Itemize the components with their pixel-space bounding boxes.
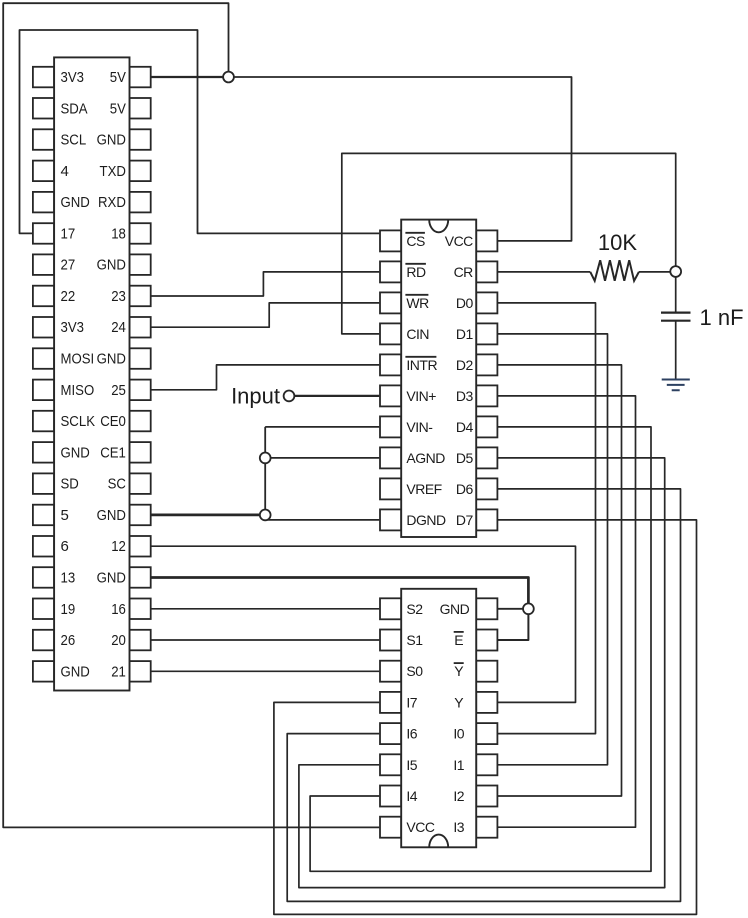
wire ADC D0 to MUX I0 bbox=[498, 303, 596, 734]
GPIO header J1 right pin 24 bbox=[130, 317, 151, 338]
GPIO header J1 right pin GND bbox=[130, 254, 151, 275]
MUX U2 right pin I0 bbox=[476, 723, 497, 744]
GPIO header J1 left pin GND bbox=[33, 661, 54, 682]
svg-text:RXD: RXD bbox=[98, 194, 126, 211]
wire GPIO12 to MUX Y bbox=[151, 546, 576, 702]
svg-text:CR: CR bbox=[454, 264, 474, 280]
GPIO header J1 right pin 16 bbox=[130, 599, 151, 620]
wire ADC D2 to MUX I2 bbox=[498, 365, 622, 796]
GPIO header J1 left pin 5 bbox=[33, 505, 54, 526]
wire junction to ADC AGND bbox=[265, 457, 379, 459]
IC body GPIO header J1 bbox=[54, 57, 129, 690]
wire resistor R1 right lead to junction bbox=[639, 271, 670, 273]
GPIO header J1 right pin GND bbox=[130, 129, 151, 150]
svg-text:VIN-: VIN- bbox=[406, 419, 433, 435]
svg-text:WR: WR bbox=[406, 295, 429, 311]
ADC U1 right pin D0 bbox=[476, 292, 497, 313]
svg-text:Y: Y bbox=[454, 663, 464, 679]
GPIO header J1 right pin SC bbox=[130, 473, 151, 494]
svg-text:SD: SD bbox=[61, 476, 79, 493]
wire junction to MUX E bbox=[498, 609, 529, 640]
GPIO header J1 left pin 27 bbox=[33, 254, 54, 275]
GPIO header J1 right pin 23 bbox=[130, 286, 151, 307]
ADC U1 right pin CR bbox=[476, 261, 497, 282]
MUX U2 left pin S1 bbox=[380, 630, 401, 651]
RC clock junction node bbox=[670, 266, 681, 277]
GPIO header J1 right pin 25 bbox=[130, 380, 151, 401]
svg-text:S0: S0 bbox=[406, 663, 423, 679]
ADC U1 right pin D2 bbox=[476, 354, 497, 375]
MUX U2 right pin GND bbox=[476, 598, 497, 619]
GPIO header J1 left pin 17 bbox=[33, 223, 54, 244]
svg-text:Y: Y bbox=[454, 694, 464, 710]
svg-text:1 nF: 1 nF bbox=[700, 305, 744, 330]
svg-text:GND: GND bbox=[97, 257, 126, 274]
svg-text:I5: I5 bbox=[406, 757, 417, 773]
svg-text:D2: D2 bbox=[456, 357, 474, 373]
svg-text:I2: I2 bbox=[453, 788, 464, 804]
svg-text:10K: 10K bbox=[598, 230, 637, 255]
svg-text:AGND: AGND bbox=[406, 450, 445, 466]
GPIO header J1 right pin CE1 bbox=[130, 442, 151, 463]
node Input terminal circle bbox=[284, 391, 295, 402]
ADC U1 left pin WR bbox=[380, 292, 401, 313]
wire ADC D3 to MUX I3 bbox=[498, 396, 636, 827]
wire analog ground net vertical bbox=[264, 427, 266, 520]
svg-text:TXD: TXD bbox=[100, 163, 127, 180]
ADC U1 right pin D3 bbox=[476, 385, 497, 406]
wire GPIO20 to MUX S1 bbox=[151, 639, 380, 641]
svg-text:3V3: 3V3 bbox=[61, 319, 85, 336]
GPIO header J1 right pin 12 bbox=[130, 536, 151, 557]
GPIO header J1 right pin GND bbox=[130, 567, 151, 588]
svg-text:I1: I1 bbox=[453, 757, 464, 773]
ADC U1 left pin INTR bbox=[380, 354, 401, 375]
svg-text:D6: D6 bbox=[456, 481, 474, 497]
wire ADC D4 to MUX I4 bbox=[310, 427, 651, 871]
svg-text:3V3: 3V3 bbox=[61, 69, 85, 86]
AGND junction node bbox=[260, 453, 271, 464]
svg-text:18: 18 bbox=[111, 225, 126, 242]
GPIO header J1 left pin 13 bbox=[33, 567, 54, 588]
svg-text:D0: D0 bbox=[456, 295, 474, 311]
ADC U1 right pin D6 bbox=[476, 478, 497, 499]
svg-text:RD: RD bbox=[406, 264, 426, 280]
IC body MUX U2 bbox=[401, 589, 476, 848]
svg-text:13: 13 bbox=[61, 570, 76, 587]
ground symbol bbox=[662, 380, 690, 391]
wire 5V: GPIO 5V pin to junction bbox=[151, 76, 229, 78]
GPIO header J1 left pin GND bbox=[33, 192, 54, 213]
svg-text:27: 27 bbox=[61, 257, 76, 274]
svg-text:D1: D1 bbox=[456, 326, 474, 342]
wire junction to ADC VIN- bbox=[265, 426, 379, 428]
svg-text:24: 24 bbox=[111, 319, 126, 336]
wire capacitor C1 bottom lead to ground bbox=[675, 321, 677, 380]
MUX U2 left pin VCC bbox=[380, 817, 401, 838]
capacitor C1 1 nF plates bbox=[661, 313, 691, 321]
svg-text:CIN: CIN bbox=[406, 326, 429, 342]
svg-text:E: E bbox=[454, 632, 463, 648]
ADC U1 left pin AGND bbox=[380, 447, 401, 468]
GPIO header J1 right pin 5V bbox=[130, 67, 151, 88]
wire GPIO24 to ADC WR bbox=[151, 303, 380, 327]
ADC U1 left pin VIN- bbox=[380, 416, 401, 437]
GPIO header J1 right pin 18 bbox=[130, 223, 151, 244]
svg-text:D4: D4 bbox=[456, 419, 474, 435]
svg-text:SDA: SDA bbox=[61, 100, 88, 117]
5V junction node bbox=[223, 72, 234, 83]
wire resistor R1 left lead from ADC CR bbox=[498, 271, 591, 273]
svg-text:5V: 5V bbox=[110, 100, 126, 117]
svg-text:MOSI: MOSI bbox=[61, 351, 95, 368]
ADC U1 right pin VCC bbox=[476, 230, 497, 251]
GPIO header J1 right pin 21 bbox=[130, 661, 151, 682]
ADC U1 left pin CS bbox=[380, 230, 401, 251]
MUX U2 left pin I7 bbox=[380, 692, 401, 713]
svg-text:GND: GND bbox=[61, 663, 90, 680]
svg-text:5V: 5V bbox=[110, 69, 126, 86]
GPIO header J1 right pin 20 bbox=[130, 630, 151, 651]
svg-text:CS: CS bbox=[406, 233, 425, 249]
GPIO header J1 right pin TXD bbox=[130, 161, 151, 182]
svg-text:CE0: CE0 bbox=[100, 413, 126, 430]
GPIO header J1 left pin GND bbox=[33, 442, 54, 463]
svg-text:GND: GND bbox=[97, 132, 126, 149]
GPIO header J1 left pin MISO bbox=[33, 380, 54, 401]
wire GPIO25 to ADC INTR bbox=[151, 365, 380, 390]
MUX U2 left pin I4 bbox=[380, 786, 401, 807]
MUX U2 left pin S0 bbox=[380, 661, 401, 682]
svg-text:Input: Input bbox=[231, 383, 280, 408]
GPIO header J1 left pin 22 bbox=[33, 286, 54, 307]
MUX U2 right pin I1 bbox=[476, 754, 497, 775]
svg-text:4: 4 bbox=[61, 163, 69, 180]
GPIO header J1 left pin 3V3 bbox=[33, 67, 54, 88]
GPIO header J1 left pin 4 bbox=[33, 161, 54, 182]
svg-text:MISO: MISO bbox=[61, 382, 95, 399]
ADC U1 left pin DGND bbox=[380, 509, 401, 530]
wire GPIO GND to MUX GND/E junction bbox=[151, 578, 529, 609]
ground wire junction node bbox=[260, 510, 271, 521]
MUX U2 right pin I2 bbox=[476, 786, 497, 807]
wire junction to ADC DGND bbox=[265, 519, 379, 521]
ADC U1 right pin D7 bbox=[476, 509, 497, 530]
svg-text:VIN+: VIN+ bbox=[406, 388, 436, 404]
GPIO header J1 left pin 19 bbox=[33, 599, 54, 620]
wire GPIO GND to junction (analog ground net) bbox=[151, 514, 266, 517]
MUX U2 right pin Y1 bbox=[476, 661, 497, 682]
svg-text:D5: D5 bbox=[456, 450, 474, 466]
ADC U1 right pin D5 bbox=[476, 447, 497, 468]
svg-text:SCL: SCL bbox=[61, 132, 87, 149]
GPIO header J1 left pin SD bbox=[33, 473, 54, 494]
IC body ADC U1 bbox=[401, 220, 476, 537]
svg-text:21: 21 bbox=[111, 663, 126, 680]
svg-text:23: 23 bbox=[111, 288, 126, 305]
wire ADC D7 to MUX I7 bbox=[274, 520, 697, 915]
wire GPIO23 to ADC RD bbox=[151, 272, 380, 296]
wire ADC CIN to RC junction bbox=[342, 153, 676, 334]
svg-text:VREF: VREF bbox=[406, 481, 441, 497]
svg-text:S1: S1 bbox=[406, 632, 423, 648]
GPIO header J1 left pin SDA bbox=[33, 98, 54, 119]
GPIO header J1 right pin GND bbox=[130, 505, 151, 526]
MUX U2 right pin Y bbox=[476, 692, 497, 713]
GPIO header J1 right pin 5V bbox=[130, 98, 151, 119]
GPIO header J1 right pin RXD bbox=[130, 192, 151, 213]
ADC U1 left pin CIN bbox=[380, 323, 401, 344]
ADC U1 pin-1 notch bbox=[429, 220, 448, 233]
wire 5V rail outer loop: top-left around to MUX VCC bbox=[3, 3, 379, 827]
svg-text:D7: D7 bbox=[456, 512, 474, 528]
svg-text:16: 16 bbox=[111, 601, 126, 618]
ADC U1 right pin D4 bbox=[476, 416, 497, 437]
svg-text:SCLK: SCLK bbox=[61, 413, 96, 430]
GPIO header J1 left pin 6 bbox=[33, 536, 54, 557]
MUX U2 left pin I6 bbox=[380, 723, 401, 744]
GPIO header J1 left pin MOSI bbox=[33, 348, 54, 369]
svg-text:GND: GND bbox=[97, 507, 126, 524]
GPIO header J1 left pin SCLK bbox=[33, 411, 54, 432]
svg-text:5: 5 bbox=[61, 507, 69, 524]
svg-text:SC: SC bbox=[108, 476, 126, 493]
svg-text:20: 20 bbox=[111, 632, 126, 649]
svg-text:GND: GND bbox=[61, 194, 90, 211]
svg-text:GND: GND bbox=[61, 444, 90, 461]
svg-text:6: 6 bbox=[61, 538, 69, 555]
svg-text:19: 19 bbox=[61, 601, 76, 618]
wire GPIO21 to MUX S0 bbox=[151, 670, 380, 672]
MUX U2 left pin I5 bbox=[380, 754, 401, 775]
svg-text:25: 25 bbox=[111, 382, 126, 399]
svg-text:S2: S2 bbox=[406, 601, 423, 617]
wire ADC D6 to MUX I6 bbox=[287, 489, 680, 902]
ADC U1 right pin D1 bbox=[476, 323, 497, 344]
MUX U2 right pin I3 bbox=[476, 817, 497, 838]
svg-text:INTR: INTR bbox=[406, 357, 437, 373]
wire Input terminal to ADC VIN+ bbox=[294, 395, 379, 397]
svg-text:GND: GND bbox=[440, 601, 470, 617]
svg-text:I6: I6 bbox=[406, 726, 417, 742]
ADC U1 left pin RD bbox=[380, 261, 401, 282]
resistor R1 10K bbox=[590, 260, 639, 281]
svg-text:CE1: CE1 bbox=[100, 444, 126, 461]
svg-text:17: 17 bbox=[61, 225, 76, 242]
svg-text:I4: I4 bbox=[406, 788, 417, 804]
wire capacitor C1 top lead bbox=[675, 277, 677, 313]
svg-text:22: 22 bbox=[61, 288, 76, 305]
GPIO header J1 left pin 26 bbox=[33, 630, 54, 651]
GPIO header J1 right pin GND bbox=[130, 348, 151, 369]
MUX U2 pin-1 notch bbox=[429, 835, 448, 848]
wire ADC D1 to MUX I1 bbox=[498, 334, 608, 765]
svg-text:I0: I0 bbox=[453, 726, 464, 742]
wire junction to MUX GND pin bbox=[498, 608, 529, 610]
svg-text:I3: I3 bbox=[453, 819, 464, 835]
wire GPIO16 to MUX S2 bbox=[151, 608, 380, 610]
GPIO header J1 left pin 3V3 bbox=[33, 317, 54, 338]
MUX GND/E junction node bbox=[523, 603, 534, 614]
svg-text:12: 12 bbox=[111, 538, 126, 555]
MUX U2 right pin E bbox=[476, 630, 497, 651]
wire ADC D5 to MUX I5 bbox=[299, 458, 665, 888]
svg-text:GND: GND bbox=[97, 351, 126, 368]
MUX U2 left pin S2 bbox=[380, 598, 401, 619]
svg-text:VCC: VCC bbox=[445, 233, 473, 249]
wire 5V: junction to ADC VCC bbox=[229, 77, 572, 241]
svg-text:VCC: VCC bbox=[406, 819, 434, 835]
svg-text:DGND: DGND bbox=[406, 512, 446, 528]
svg-text:D3: D3 bbox=[456, 388, 474, 404]
svg-text:26: 26 bbox=[61, 632, 76, 649]
GPIO header J1 left pin SCL bbox=[33, 129, 54, 150]
ADC U1 left pin VREF bbox=[380, 478, 401, 499]
svg-text:I7: I7 bbox=[406, 694, 417, 710]
GPIO header J1 right pin CE0 bbox=[130, 411, 151, 432]
svg-text:GND: GND bbox=[97, 570, 126, 587]
wire GPIO17 to ADC CS bbox=[20, 30, 380, 233]
ADC U1 left pin VIN+ bbox=[380, 385, 401, 406]
